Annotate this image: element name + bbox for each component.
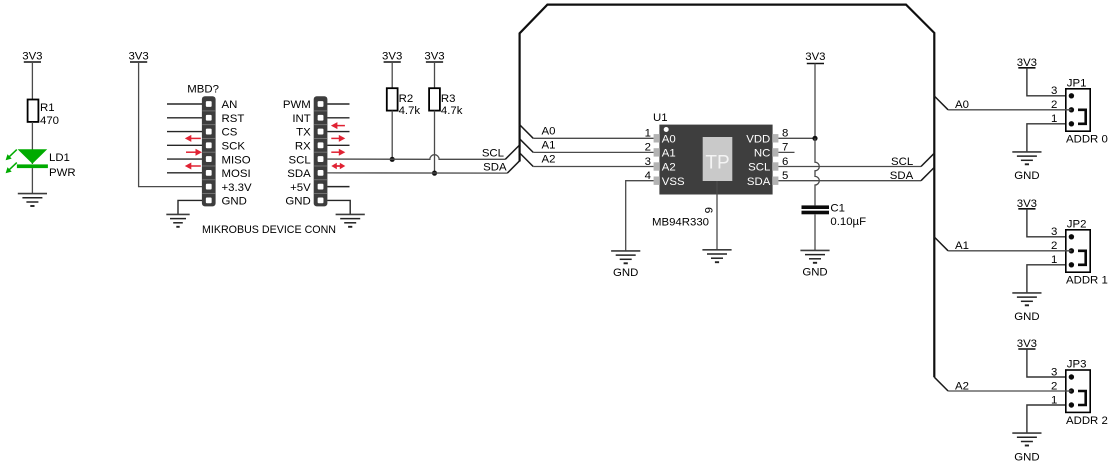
wire 3V3 to JP1 pin 3 xyxy=(1027,68,1072,96)
svg-text:GND: GND xyxy=(1014,451,1039,463)
svg-text:ADDR 0: ADDR 0 xyxy=(1066,134,1108,146)
svg-text:9: 9 xyxy=(704,207,716,213)
svg-text:1: 1 xyxy=(1051,113,1057,125)
wire stub RST xyxy=(167,117,202,119)
bus entry SDA (left) xyxy=(507,161,519,173)
wire TP pad to ground xyxy=(716,181,718,250)
wire SCL (mikrobus to bus, hop over R3) xyxy=(327,155,505,160)
wire stub RX xyxy=(327,144,349,146)
svg-text:A2: A2 xyxy=(542,154,556,166)
bus entry A1 (left) xyxy=(520,139,534,153)
svg-text:+3.3V: +3.3V xyxy=(222,182,252,194)
svg-text:VSS: VSS xyxy=(662,176,685,188)
svg-text:R2: R2 xyxy=(399,93,414,105)
wire JP2 pin 1 to ground xyxy=(1027,265,1072,293)
wire A1 to pin 2 xyxy=(533,151,653,153)
svg-text:GND: GND xyxy=(613,267,638,279)
ground (right header) xyxy=(336,214,365,226)
svg-text:JP2: JP2 xyxy=(1067,219,1087,231)
LED LD1 PWR (green) xyxy=(17,149,76,179)
wire SCL pin 6 to bus xyxy=(778,166,921,168)
direction arrows (left header) xyxy=(185,135,202,170)
svg-text:U1: U1 xyxy=(653,112,668,124)
svg-text:ADDR 1: ADDR 1 xyxy=(1066,275,1108,287)
wire R2 to SCL xyxy=(391,111,393,160)
wire SDA pin 5 to bus xyxy=(778,180,921,182)
wire LED to ground xyxy=(31,168,33,194)
svg-text:R1: R1 xyxy=(40,102,55,114)
svg-text:TX: TX xyxy=(296,127,311,139)
svg-text:SDA: SDA xyxy=(287,168,311,180)
wire stub SCK xyxy=(167,144,202,146)
wire stub GND (left header) xyxy=(178,200,202,214)
svg-text:GND: GND xyxy=(285,196,310,208)
junction VDD xyxy=(812,136,817,141)
svg-text:3V3: 3V3 xyxy=(22,51,42,63)
ground (C1) GND xyxy=(800,250,829,278)
connector MIKROBUS left header (AN..GND) xyxy=(202,96,252,207)
connector MIKROBUS right header (PWM..GND) xyxy=(283,96,328,207)
svg-text:MB94R330: MB94R330 xyxy=(652,217,709,229)
svg-text:1: 1 xyxy=(1051,394,1057,406)
svg-text:JP3: JP3 xyxy=(1067,359,1087,371)
wire 3V3 to JP2 pin 3 xyxy=(1027,209,1072,237)
svg-text:PWM: PWM xyxy=(283,99,311,111)
wire JP3 pin 1 to ground xyxy=(1027,405,1072,433)
svg-text:A2: A2 xyxy=(955,380,969,392)
svg-text:CS: CS xyxy=(222,127,238,139)
svg-text:4.7k: 4.7k xyxy=(399,105,421,117)
svg-text:4.7k: 4.7k xyxy=(441,105,463,117)
svg-text:NC: NC xyxy=(754,148,770,160)
svg-text:LD1: LD1 xyxy=(49,152,70,164)
svg-text:3: 3 xyxy=(1051,85,1057,97)
bus exit A2 (right) xyxy=(934,377,948,391)
svg-text:SDA: SDA xyxy=(483,161,507,173)
ground (JP2) GND xyxy=(1012,293,1041,323)
resistor R1 470 xyxy=(28,100,59,128)
capacitor C1 0.10uF xyxy=(802,202,867,228)
wire stub MISO xyxy=(167,158,202,160)
wire SDA (mikrobus to bus) xyxy=(327,172,507,174)
wire 3V3 to R3 xyxy=(434,62,436,88)
svg-text:AN: AN xyxy=(222,99,238,111)
svg-text:ADDR 2: ADDR 2 xyxy=(1066,415,1108,427)
svg-text:A0: A0 xyxy=(662,134,676,146)
wire A2 to JP3 pin 2 xyxy=(948,390,1071,392)
wire A0 to pin 1 xyxy=(533,137,653,139)
svg-text:JP1: JP1 xyxy=(1067,78,1087,90)
wire stub MOSI xyxy=(167,172,202,174)
svg-text:MOSI: MOSI xyxy=(222,168,251,180)
svg-text:MISO: MISO xyxy=(222,154,251,166)
wire stub PWM xyxy=(327,103,349,105)
wire stub CS xyxy=(167,131,202,133)
svg-text:A1: A1 xyxy=(542,140,556,152)
svg-text:SCK: SCK xyxy=(222,141,246,153)
svg-text:TP: TP xyxy=(705,152,729,173)
direction arrows (right header) xyxy=(331,122,345,169)
bus (thick outline) xyxy=(520,5,935,378)
ground (JP3) GND xyxy=(1012,433,1041,463)
svg-text:1: 1 xyxy=(1051,254,1057,266)
svg-text:0.10µF: 0.10µF xyxy=(830,216,866,228)
svg-text:R3: R3 xyxy=(441,93,456,105)
resistor R2 4.7k xyxy=(387,88,421,117)
jumper JP3 ADDR 2 xyxy=(1051,359,1108,427)
wire stub TX xyxy=(327,131,349,133)
svg-text:SDA: SDA xyxy=(747,176,771,188)
bus exit A0 (right) xyxy=(934,96,948,110)
svg-text:SDA: SDA xyxy=(890,170,914,182)
svg-text:1: 1 xyxy=(645,128,651,140)
bus entry A2 (left) xyxy=(520,153,534,167)
wire A0 to JP1 pin 2 xyxy=(948,109,1071,111)
wire 3V3 to VDD junction xyxy=(814,64,816,139)
wire A2 to pin 3 xyxy=(533,166,653,168)
ground (LED) xyxy=(18,194,47,206)
svg-text:C1: C1 xyxy=(830,202,845,214)
junction R3/SDA xyxy=(432,171,437,176)
svg-text:MBD?: MBD? xyxy=(187,84,219,96)
ground (left header) xyxy=(166,214,189,226)
svg-text:SCL: SCL xyxy=(289,154,311,166)
svg-text:GND: GND xyxy=(1014,311,1039,323)
junction R2/SCL xyxy=(390,157,395,162)
svg-text:3V3: 3V3 xyxy=(128,51,148,63)
svg-text:PWR: PWR xyxy=(49,167,76,179)
svg-text:+5V: +5V xyxy=(290,182,311,194)
svg-text:SCL: SCL xyxy=(482,148,504,160)
svg-text:GND: GND xyxy=(802,267,827,279)
wire stub GND (right header) xyxy=(327,200,350,214)
wire VSS to ground xyxy=(626,181,654,251)
svg-text:3V3: 3V3 xyxy=(805,51,825,63)
svg-text:RST: RST xyxy=(222,113,245,125)
svg-text:SCL: SCL xyxy=(891,156,913,168)
wire A1 to JP2 pin 2 xyxy=(948,250,1071,252)
svg-text:GND: GND xyxy=(1014,170,1039,182)
IC U1 MB94R330 xyxy=(654,125,779,195)
bus entry SDA (right) xyxy=(921,167,934,180)
svg-text:3V3: 3V3 xyxy=(424,51,444,63)
wire 3V3 to R1 xyxy=(31,62,33,100)
wire 3V3 rail to +3.3V pin xyxy=(139,62,202,187)
svg-text:A1: A1 xyxy=(662,148,676,160)
svg-text:A2: A2 xyxy=(662,162,676,174)
wire C1 to ground xyxy=(814,214,816,250)
svg-text:GND: GND xyxy=(222,196,247,208)
bus entry A0 (left) xyxy=(520,125,534,139)
wire 3V3 to JP3 pin 3 xyxy=(1027,349,1072,377)
svg-text:A0: A0 xyxy=(542,125,556,137)
ground (JP1) GND xyxy=(1012,152,1041,182)
wire NC stub xyxy=(778,151,794,153)
wire VDD to C1 (hops over SCL and SDA) xyxy=(815,138,819,205)
svg-text:RX: RX xyxy=(295,141,311,153)
ground (TP pad) xyxy=(702,250,731,262)
svg-text:2: 2 xyxy=(645,142,651,154)
ground (VSS) GND xyxy=(611,251,640,279)
svg-text:3: 3 xyxy=(1051,366,1057,378)
bus entry SCL (right) xyxy=(921,153,934,166)
wire stub AN xyxy=(167,103,202,105)
wire VDD pin 8 xyxy=(778,137,815,139)
svg-text:3: 3 xyxy=(645,156,651,168)
bus exit A1 (right) xyxy=(934,237,948,251)
svg-text:A0: A0 xyxy=(955,99,969,111)
wire R3 to SDA xyxy=(434,111,436,174)
wire 3V3 to R2 xyxy=(391,62,393,88)
svg-text:SCL: SCL xyxy=(748,162,770,174)
wire stub +5V xyxy=(327,186,349,188)
resistor R3 4.7k xyxy=(429,88,463,117)
svg-text:3V3: 3V3 xyxy=(382,51,402,63)
svg-text:A1: A1 xyxy=(955,240,969,252)
svg-text:INT: INT xyxy=(292,113,310,125)
jumper JP2 ADDR 1 xyxy=(1051,219,1108,287)
svg-text:3: 3 xyxy=(1051,226,1057,238)
svg-text:VDD: VDD xyxy=(746,134,770,146)
wire JP1 pin 1 to ground xyxy=(1027,124,1072,152)
wire R1 to LED xyxy=(31,122,33,164)
wire stub INT xyxy=(327,117,349,119)
svg-text:MIKROBUS DEVICE CONN: MIKROBUS DEVICE CONN xyxy=(202,224,336,236)
LED light arrows xyxy=(6,150,17,174)
svg-text:470: 470 xyxy=(40,115,59,127)
jumper JP1 ADDR 0 xyxy=(1051,78,1108,146)
bus entry SCL (left) xyxy=(505,145,519,159)
